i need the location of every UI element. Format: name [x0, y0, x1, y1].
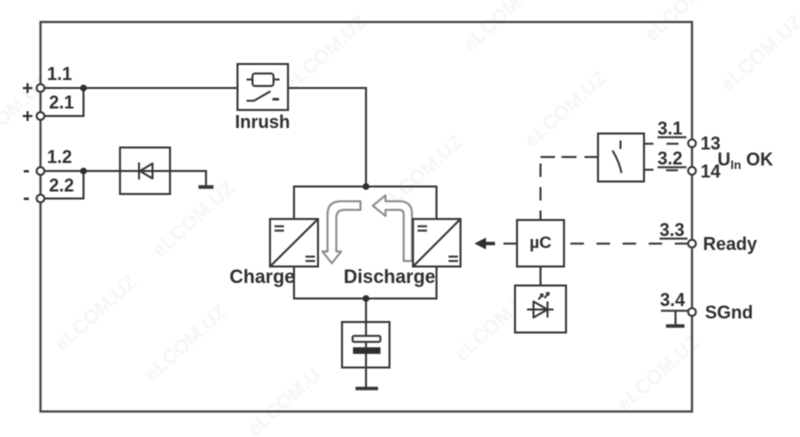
- wire: terminal 1.2 to diode: [45, 170, 120, 172]
- wire stub: relay to 3.2: [644, 169, 678, 171]
- label SGnd: [705, 303, 753, 323]
- svg-text:2.2: 2.2: [49, 176, 74, 196]
- label Inrush: [235, 112, 290, 132]
- dashed wire: uC to terminal 3.3: [570, 243, 688, 245]
- terminal 3.1: [658, 119, 721, 154]
- terminal 3.2: [658, 149, 721, 182]
- inrush limiter block: [238, 64, 289, 110]
- discharge converter block: [413, 219, 461, 267]
- charge converter block: [270, 219, 318, 267]
- svg-text:Inrush: Inrush: [235, 112, 290, 132]
- svg-text:3.1: 3.1: [658, 119, 683, 139]
- label Uin OK: [718, 150, 774, 173]
- svg-text:+: +: [22, 107, 33, 128]
- dashed wire: uC to discharge arrow: [504, 243, 518, 245]
- svg-text:3.4: 3.4: [660, 290, 685, 310]
- svg-text:2.1: 2.1: [49, 93, 74, 113]
- wire stub: relay to 3.1: [644, 143, 679, 145]
- capacitor block: [342, 322, 390, 368]
- junction dot input plus: [80, 85, 87, 92]
- svg-text:eLCOM.UZ: eLCOM.UZ: [717, 11, 800, 96]
- wire: converter loop: [294, 187, 437, 299]
- svg-text:1.1: 1.1: [47, 64, 72, 84]
- svg-text:Ready: Ready: [703, 234, 757, 254]
- svg-text:eLCOM.UZ: eLCOM.UZ: [141, 301, 232, 386]
- label Discharge: [344, 267, 436, 288]
- svg-text:eLCOM.UZ: eLCOM.UZ: [51, 271, 142, 356]
- arrowhead to discharge: [474, 238, 495, 250]
- svg-text:eLCOM.U: eLCOM.U: [244, 364, 326, 437]
- microcontroller block U1: [517, 220, 564, 267]
- enclosure border: [41, 22, 693, 412]
- wire: capacitor to ground: [365, 368, 367, 389]
- terminal 3.3: [660, 220, 696, 248]
- svg-text:Discharge: Discharge: [344, 267, 436, 288]
- ground SGnd: [666, 311, 685, 326]
- gray arrow: discharge direction: [373, 195, 412, 261]
- junction dot bus bottom: [363, 295, 370, 302]
- wire: Inrush to converter bus: [288, 88, 366, 187]
- terminal 1.1: [22, 64, 72, 100]
- wire: terminal 2.2 jumper: [45, 171, 84, 199]
- wire: terminal 2.1 jumper: [45, 88, 84, 116]
- svg-text:UIn OK: UIn OK: [718, 150, 774, 173]
- svg-text:-: -: [23, 160, 30, 182]
- junction dot input minus: [80, 168, 87, 175]
- svg-text:eLCOM.UZ: eLCOM.UZ: [614, 331, 705, 416]
- terminal 2.1: [22, 93, 74, 128]
- diode block: [120, 148, 170, 195]
- svg-text:-: -: [23, 187, 30, 209]
- wire: diode to input ground: [170, 171, 206, 186]
- gray arrow: charge direction: [322, 201, 360, 263]
- svg-text:eLCOM.UZ: eLCOM.UZ: [281, 11, 372, 96]
- terminal 1.2: [23, 147, 72, 182]
- terminal 2.2: [23, 176, 74, 210]
- svg-text:eLCOM.UZ: eLCOM.UZ: [459, 0, 550, 56]
- svg-text:SGnd: SGnd: [705, 303, 753, 323]
- wire: terminal 1.1 to Inrush: [45, 87, 238, 89]
- svg-text:3.3: 3.3: [660, 220, 685, 240]
- wire: uC to LED: [540, 267, 542, 286]
- wire: loop to capacitor: [365, 299, 367, 323]
- terminal 3.4: [660, 290, 696, 316]
- svg-text:3.2: 3.2: [658, 149, 683, 169]
- dashed wire: uC to relay switch: [541, 157, 599, 220]
- svg-text:Charge: Charge: [230, 267, 295, 288]
- label Charge: [230, 267, 295, 288]
- svg-text:+: +: [22, 79, 33, 100]
- svg-text:µC: µC: [529, 233, 551, 252]
- LED block: [515, 286, 566, 333]
- ground input bar: [199, 185, 214, 189]
- svg-text:1.2: 1.2: [47, 147, 72, 167]
- ground capacitor bar: [356, 387, 379, 391]
- junction dot bus top: [363, 183, 370, 190]
- relay contact block: [598, 134, 644, 182]
- label Ready: [703, 234, 757, 254]
